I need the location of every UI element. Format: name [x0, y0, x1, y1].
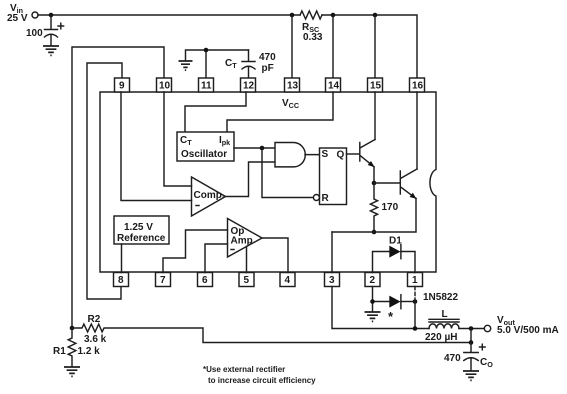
- pin 8: [114, 273, 129, 287]
- svg-text:10: 10: [159, 81, 171, 92]
- node rail-pin14 junction: [331, 13, 336, 18]
- svg-text:Amp: Amp: [231, 236, 253, 247]
- wire bus to pin3: [331, 232, 333, 273]
- svg-text:6: 6: [202, 275, 208, 286]
- ground R1: [64, 367, 80, 376]
- transistor Q1 output: [399, 171, 401, 194]
- svg-text:*Use external rectifier: *Use external rectifier: [203, 365, 285, 374]
- wire reference to pin8: [121, 244, 123, 273]
- svg-text:1.2 k: 1.2 k: [78, 346, 101, 357]
- svg-text:4: 4: [285, 275, 291, 286]
- pin 16: [410, 78, 425, 92]
- pin 3: [325, 273, 340, 287]
- pin 15: [368, 78, 383, 92]
- node Vout junction: [469, 326, 474, 331]
- svg-text:9: 9: [119, 81, 125, 92]
- inductor L 220 uH: [429, 324, 459, 329]
- wire Q2 emitter to Q1 base: [374, 182, 400, 184]
- comparator Comp: [192, 177, 226, 216]
- wire diode to output line: [414, 302, 416, 329]
- reference block 1.25 V: [114, 216, 169, 244]
- svg-text:S: S: [322, 149, 329, 160]
- wire pin3 to output line: [332, 287, 429, 329]
- wire pin10 external loop to divider: [72, 47, 164, 328]
- svg-text:Oscillator: Oscillator: [181, 149, 227, 160]
- wire pin10 to comparator + input: [164, 92, 192, 186]
- svg-text:to increase circuit efficiency: to increase circuit efficiency: [208, 376, 316, 385]
- pin 7: [156, 273, 171, 287]
- wire pin9 to comparator - input: [121, 92, 192, 201]
- wire rail to pin14: [332, 15, 334, 78]
- svg-text:13: 13: [287, 81, 299, 92]
- pin 14: [326, 78, 341, 92]
- svg-text:7: 7: [160, 275, 166, 286]
- wire rail to pin13: [291, 15, 293, 78]
- svg-text:25 V: 25 V: [7, 13, 28, 24]
- op-amp: [228, 219, 263, 258]
- pin 13: [285, 78, 300, 92]
- AND gate: [275, 143, 305, 167]
- wire pin11 ground net: [186, 50, 249, 78]
- svg-text:Q: Q: [337, 150, 345, 161]
- node pin2 diode junction: [370, 299, 375, 304]
- oscillator block: [177, 132, 234, 161]
- transistor Q2 driver: [359, 143, 361, 162]
- wire emitter bus pin3 to Q1 emitter: [332, 199, 416, 233]
- svg-text:100: 100: [26, 28, 43, 39]
- svg-text:3.6 k: 3.6 k: [84, 334, 107, 345]
- svg-text:1N5822: 1N5822: [423, 292, 458, 303]
- wire comparator output to AND gate: [226, 162, 276, 197]
- ground pin2: [365, 312, 381, 321]
- resistor R2 3.6 k: [72, 324, 471, 342]
- pin 10: [157, 78, 172, 92]
- ground pin11 net: [179, 61, 193, 70]
- svg-text:470: 470: [444, 353, 461, 364]
- wire Vout to feedback line: [470, 329, 472, 343]
- diode D1: [373, 252, 416, 273]
- capacitor 100uF input: [45, 15, 58, 46]
- wire pin5 to op-amp feedback: [246, 246, 248, 272]
- terminal Vout: [484, 325, 490, 331]
- node rail-pin15 junction: [373, 13, 378, 18]
- wire op-amp output to pin4: [262, 238, 288, 273]
- resistor R1 1.2 k: [68, 328, 76, 367]
- ground CO: [463, 371, 479, 380]
- svg-text:2: 2: [370, 275, 376, 286]
- pin 11: [199, 78, 214, 92]
- wire top supply rail: [38, 15, 417, 78]
- svg-text:0.33: 0.33: [303, 32, 323, 43]
- svg-text:220 µH: 220 µH: [425, 332, 457, 343]
- ground input cap: [43, 46, 59, 55]
- wire AND output to latch S: [305, 154, 320, 156]
- wire rail to pin15: [374, 15, 376, 78]
- node external diode cathode: [413, 299, 418, 304]
- svg-text:5: 5: [244, 275, 250, 286]
- svg-text:11: 11: [201, 81, 212, 92]
- svg-text:3: 3: [329, 275, 335, 286]
- wire latch Q to driver base: [347, 153, 360, 155]
- wire pin14 to oscillator Ipk: [227, 92, 333, 132]
- svg-text:14: 14: [328, 81, 340, 92]
- svg-text:D1: D1: [389, 236, 402, 247]
- wire inductor to Vout: [459, 328, 484, 330]
- wire pin7 to op-amp + input: [163, 230, 228, 273]
- node Q2 emitter junction: [372, 181, 377, 186]
- node pin11 net junction: [204, 48, 209, 53]
- latch S-R flip flop: [320, 148, 347, 205]
- wire pin12 to oscillator CT: [185, 92, 246, 132]
- node feedback junction: [469, 340, 474, 345]
- wire oscillator output to AND gate: [234, 147, 275, 149]
- wire pin2 to external diode: [373, 287, 390, 312]
- pin 12: [241, 78, 256, 92]
- node R inversion bubble: [313, 195, 319, 201]
- node 170 bottom junction: [372, 230, 377, 235]
- svg-text:1: 1: [412, 275, 418, 286]
- capacitor CT 470 pF: [242, 50, 255, 78]
- resistor RSC 0.33: [300, 11, 322, 19]
- svg-text:R: R: [322, 193, 330, 204]
- svg-text:Reference: Reference: [117, 233, 166, 244]
- wire pin15 to Q2 collector: [374, 92, 376, 140]
- pin 2: [365, 273, 380, 287]
- svg-text:170: 170: [382, 202, 399, 213]
- node rail-pin13 junction: [290, 13, 295, 18]
- svg-text:12: 12: [243, 81, 255, 92]
- wire pin6 to op-amp - input: [205, 244, 228, 273]
- node divider junction: [70, 326, 75, 331]
- pin 1: [408, 273, 423, 287]
- wire pin16 to Q1 collector: [416, 92, 418, 169]
- svg-text:R1: R1: [53, 346, 66, 357]
- svg-text:Comp.: Comp.: [194, 190, 225, 201]
- wire pin9 external loop to pin8: [87, 63, 122, 299]
- pin 4: [280, 273, 295, 287]
- svg-text:8: 8: [118, 275, 124, 286]
- IC U1 outline: [100, 92, 436, 272]
- svg-text:1.25 V: 1.25 V: [124, 222, 153, 233]
- svg-text:pF: pF: [262, 63, 274, 74]
- resistor 170: [370, 183, 377, 232]
- node output line pin1 junction: [413, 326, 418, 331]
- svg-text:470: 470: [259, 52, 276, 63]
- wire oscillator to latch R input: [262, 148, 313, 198]
- svg-text:L: L: [442, 309, 448, 320]
- svg-text:R2: R2: [88, 314, 101, 325]
- svg-text:15: 15: [370, 81, 382, 92]
- node rail-C100 junction: [49, 13, 54, 18]
- diode 1N5822 external: [389, 296, 400, 308]
- capacitor CO 470: [464, 343, 478, 371]
- node oscillator output junction: [260, 146, 265, 151]
- pin 9: [115, 78, 130, 92]
- pin 5: [239, 273, 254, 287]
- terminal Vin: [32, 12, 38, 18]
- svg-text:5.0 V/500 mA: 5.0 V/500 mA: [497, 325, 559, 336]
- wire dashed pin1 to external diode: [414, 287, 416, 302]
- svg-text:16: 16: [412, 81, 424, 92]
- pin 6: [198, 273, 213, 287]
